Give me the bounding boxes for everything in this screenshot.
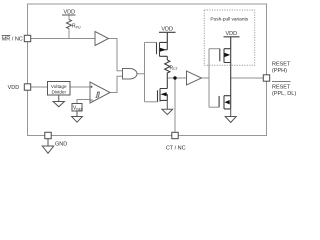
svg-text:VDD: VDD (63, 9, 75, 15)
svg-text:VDD: VDD (225, 31, 237, 37)
svg-text:VDD: VDD (8, 85, 20, 91)
svg-text:VDD: VDD (161, 26, 173, 32)
svg-text:(PPH): (PPH) (272, 68, 287, 74)
svg-text:Push-pull variants: Push-pull variants (210, 16, 248, 22)
svg-text:RPU: RPU (72, 24, 81, 30)
svg-text:RCT: RCT (170, 65, 179, 71)
svg-text:RESET: RESET (272, 84, 291, 90)
svg-text:CT / NC: CT / NC (166, 146, 186, 152)
svg-text:Divider: Divider (51, 89, 66, 94)
svg-text:RESET: RESET (272, 62, 291, 68)
svg-text:GND: GND (55, 142, 67, 148)
svg-text:VREF: VREF (73, 106, 83, 112)
svg-text:Voltage: Voltage (51, 84, 67, 89)
svg-text:MR / NC: MR / NC (2, 36, 23, 42)
svg-text:(PPL, DL): (PPL, DL) (272, 91, 296, 97)
